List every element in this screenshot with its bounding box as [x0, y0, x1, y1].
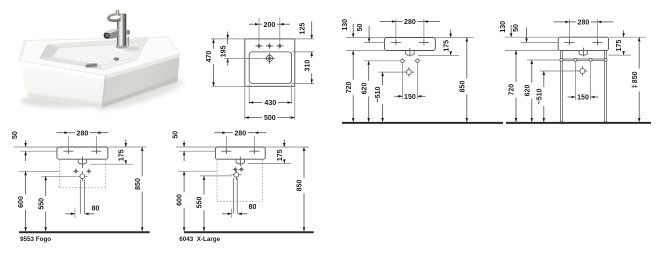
svg-text:125: 125	[299, 23, 306, 35]
svg-text:280: 280	[578, 20, 590, 27]
svg-text:175: 175	[277, 149, 284, 161]
svg-text:175: 175	[616, 40, 623, 52]
basin body (X-Large)	[215, 147, 265, 159]
dim 200	[249, 23, 259, 25]
dim 850 (X-Large)	[303, 147, 305, 178]
dim 280 (wall)	[380, 21, 396, 23]
right face bottom shade	[102, 78, 178, 108]
rail knobs	[560, 58, 563, 61]
left face rim highlight	[19, 61, 106, 80]
extension lines (front wall)	[395, 19, 397, 40]
dim 280 (console)	[553, 21, 569, 23]
svg-text:620: 620	[524, 85, 531, 97]
floor line (X-Large)	[184, 231, 314, 233]
dim 130 (console)	[510, 25, 512, 37]
dim 430	[249, 102, 262, 104]
siphon outlet	[404, 71, 414, 73]
dim 125	[311, 22, 313, 39]
svg-text:620: 620	[361, 83, 368, 95]
dim 310	[311, 52, 313, 58]
extension lines (Fogo)	[67, 136, 69, 149]
towel rail crossbar	[562, 58, 604, 60]
drain (plan)	[266, 55, 272, 61]
svg-text:~510: ~510	[536, 88, 543, 104]
right face rim band	[105, 54, 180, 80]
overflow hole	[114, 57, 119, 60]
furniture outline (X-Large, dashed)	[216, 160, 218, 201]
svg-text:9553 Fogo: 9553 Fogo	[20, 236, 51, 243]
dim 720 (wall)	[352, 51, 354, 80]
extension lines (console)	[568, 19, 570, 40]
dim 550 (Fogo)	[45, 176, 47, 196]
svg-text:550: 550	[197, 197, 204, 209]
faucet spout	[104, 29, 118, 39]
svg-text:175: 175	[118, 149, 125, 161]
svg-text:~510: ~510	[375, 87, 382, 103]
dim 600 (Fogo)	[25, 171, 27, 194]
svg-text:130: 130	[342, 19, 349, 31]
svg-text:280: 280	[77, 130, 89, 137]
tap holes (console)	[564, 41, 574, 43]
tap holes (Fogo)	[63, 150, 73, 152]
svg-text:80: 80	[249, 204, 257, 211]
furniture outline (Fogo, dashed)	[58, 160, 60, 187]
svg-text:550: 550	[38, 198, 45, 210]
svg-text:150: 150	[404, 94, 416, 101]
tap hole left	[255, 45, 262, 47]
siphon outlet (X-Large)	[231, 174, 241, 176]
dim 175 (Fogo)	[125, 140, 127, 147]
tap hole centre	[266, 45, 273, 47]
floor line	[342, 122, 503, 124]
tap hole right	[276, 45, 283, 47]
drain outlet (Fogo)	[78, 159, 86, 164]
front view on Fogo furniture	[12, 130, 150, 243]
waste pipe (Fogo)	[79, 180, 81, 214]
siphon outlet (Fogo)	[77, 175, 87, 177]
dim 620 (console)	[531, 60, 533, 83]
dim 80 (Fogo)	[66, 213, 75, 215]
dim 280 (Fogo)	[56, 132, 68, 134]
svg-text:6043 X-Large: 6043 X-Large	[179, 236, 220, 243]
dim 550 (X-Large)	[203, 176, 205, 195]
basin inner bowl (plan)	[249, 52, 291, 84]
lever pin	[116, 10, 120, 16]
svg-text:200: 200	[264, 22, 276, 29]
console legs	[561, 50, 563, 122]
bowl front wall	[39, 57, 102, 70]
dim 600 (X-Large)	[183, 171, 185, 192]
svg-text:50: 50	[357, 24, 364, 32]
drain slot	[85, 63, 98, 68]
faucet body	[117, 14, 126, 47]
body highlight	[121, 15, 123, 45]
dim 850 (wall)	[466, 38, 468, 79]
front view on X-Large furniture	[173, 130, 314, 243]
svg-text:850: 850	[135, 178, 142, 190]
basin body (Fogo)	[57, 147, 108, 159]
siphon outlet (console)	[577, 70, 587, 72]
dim 720 (console)	[515, 50, 517, 82]
inner bowl walls	[39, 38, 147, 69]
dim 80 (X-Large)	[222, 213, 231, 215]
drain outlet (X-Large)	[236, 159, 244, 164]
plan view drawing	[206, 18, 314, 123]
floor line (console)	[506, 122, 651, 124]
bowl left wall	[39, 45, 59, 59]
dim 50 (console)	[526, 28, 528, 42]
svg-text:430: 430	[265, 100, 277, 107]
dim 850 adjustable (console)	[638, 37, 640, 68]
basin right face	[102, 54, 180, 108]
svg-text:50: 50	[12, 131, 19, 139]
svg-text:150: 150	[577, 95, 589, 102]
svg-text:720: 720	[346, 81, 353, 93]
front view with console drawing	[500, 19, 651, 123]
svg-text:50: 50	[513, 24, 520, 32]
extension lines (plan)	[258, 18, 260, 43]
bowl floor shadow	[52, 57, 102, 66]
bowl back wall	[47, 38, 147, 48]
basin outer rim (plan)	[245, 39, 295, 86]
tap holes (front)	[391, 41, 401, 43]
dim 620 (wall)	[368, 61, 370, 81]
svg-text:500: 500	[264, 115, 276, 122]
dim 175 (wall)	[450, 30, 452, 38]
basin body (front)	[385, 38, 436, 51]
dim 175 (X-Large)	[283, 140, 285, 147]
dim 500	[245, 117, 262, 119]
svg-text:600: 600	[18, 196, 25, 208]
svg-text:310: 310	[304, 60, 311, 72]
washbasin product photo	[19, 10, 187, 116]
svg-text:‡ 850: ‡ 850	[632, 71, 639, 88]
dim 130 (wall)	[352, 24, 354, 37]
left face bottom shade	[28, 93, 103, 108]
fixing holes	[399, 60, 405, 62]
bowl floor	[52, 43, 140, 66]
floor shadow	[20, 95, 108, 108]
dim 195	[227, 32, 229, 39]
dim 50 (X-Large)	[183, 141, 185, 147]
svg-text:80: 80	[92, 205, 100, 212]
dim 510 (console)	[543, 71, 545, 87]
svg-text:850: 850	[459, 81, 466, 93]
svg-text:280: 280	[404, 19, 416, 26]
dim 150 (console)	[568, 96, 576, 98]
faucet lever ring	[107, 13, 125, 23]
right side knob	[126, 30, 130, 35]
svg-text:850: 850	[297, 180, 304, 192]
dim 850 (Fogo)	[141, 147, 143, 176]
faucet base	[116, 44, 128, 49]
extension lines (X-Large)	[225, 136, 227, 149]
dim 150 (wall)	[394, 95, 402, 97]
pop-up rod	[128, 37, 130, 47]
leg feet	[560, 121, 564, 123]
dim 470	[213, 39, 215, 49]
svg-text:720: 720	[509, 84, 516, 96]
floor line (Fogo)	[19, 231, 150, 233]
basin deck top	[19, 37, 180, 76]
svg-text:175: 175	[443, 40, 450, 52]
svg-text:600: 600	[177, 194, 184, 206]
basin left face	[19, 61, 106, 108]
dim 50 (Fogo)	[25, 141, 27, 147]
drain outlet	[406, 51, 414, 56]
spout mouth	[104, 33, 110, 39]
svg-text:50: 50	[173, 131, 180, 139]
dim 50 (wall)	[368, 26, 370, 42]
svg-text:195: 195	[220, 45, 227, 57]
tap holes (X-Large)	[221, 150, 231, 152]
waste pipe (X-Large)	[232, 178, 234, 214]
dim 510 (wall)	[382, 72, 384, 85]
dim 175 (console)	[623, 31, 625, 37]
svg-text:130: 130	[500, 21, 507, 33]
drain outlet (console)	[579, 50, 588, 55]
supply connections (X-Large)	[233, 167, 237, 171]
svg-text:280: 280	[234, 130, 246, 137]
svg-text:470: 470	[206, 51, 213, 63]
faucet shadow on deck	[124, 46, 140, 51]
supply connections (Fogo)	[74, 169, 78, 173]
front view wall-mounted drawing	[342, 19, 503, 123]
basin body (console)	[558, 37, 608, 50]
corner edge between faces	[102, 76, 105, 108]
deck left edge highlight	[19, 40, 28, 61]
dim 280 (X-Large)	[214, 132, 226, 134]
